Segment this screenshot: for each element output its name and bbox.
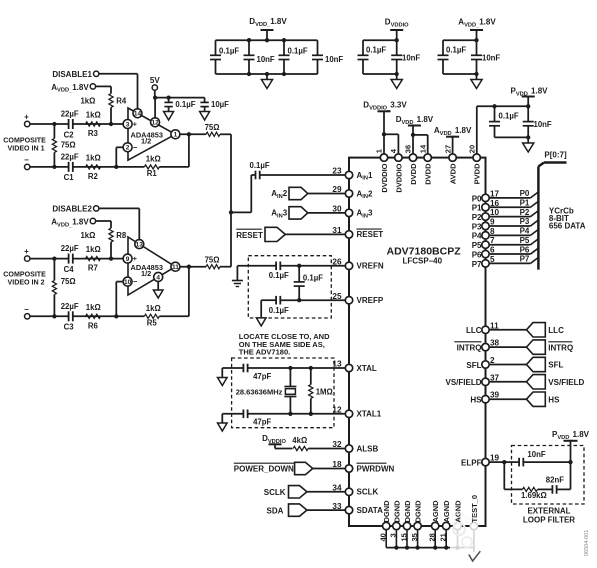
svg-text:+: + [24,113,29,122]
svg-text:0.1µF: 0.1µF [499,112,519,121]
svg-text:3: 3 [389,533,398,537]
svg-text:R1: R1 [147,169,158,178]
svg-text:9: 9 [490,217,495,226]
svg-text:COMPOSITE: COMPOSITE [3,137,46,145]
svg-text:19: 19 [490,454,500,463]
svg-text:SFL: SFL [466,361,481,370]
svg-text:P4: P4 [472,232,482,241]
svg-text:22µF: 22µF [61,110,79,119]
svg-text:14: 14 [418,144,427,153]
svg-text:656 DATA: 656 DATA [549,222,586,231]
svg-text:DGND: DGND [414,500,423,523]
svg-text:VS/FIELD: VS/FIELD [548,378,584,387]
svg-text:P5: P5 [520,236,530,245]
svg-text:COMPOSITE: COMPOSITE [3,271,46,279]
svg-text:INTRQ: INTRQ [548,343,573,352]
svg-text:22µF: 22µF [61,152,79,161]
svg-text:DGND: DGND [382,500,391,523]
svg-text:0.1µF: 0.1µF [269,271,289,280]
svg-text:10µF: 10µF [211,100,229,109]
svg-text:75Ω: 75Ω [61,140,76,149]
svg-text:38: 38 [490,339,500,348]
svg-text:C1: C1 [64,173,75,182]
svg-text:39: 39 [490,391,500,400]
svg-text:−: − [24,155,29,164]
svg-text:R5: R5 [147,318,158,327]
svg-text:4: 4 [156,274,160,281]
svg-text:C3: C3 [64,322,75,331]
svg-text:0.1µF: 0.1µF [250,161,270,170]
svg-text:SDATA: SDATA [357,506,384,515]
svg-text:10: 10 [490,208,500,217]
svg-text:P6: P6 [472,250,482,259]
svg-text:75Ω: 75Ω [205,255,220,264]
svg-text:HS: HS [470,396,482,405]
svg-text:AGND: AGND [431,500,440,523]
svg-text:06504-001: 06504-001 [584,530,590,556]
svg-text:1kΩ: 1kΩ [80,231,95,240]
svg-text:10nF: 10nF [257,55,275,64]
svg-text:7: 7 [490,236,495,245]
svg-text:0.1µF: 0.1µF [269,306,289,315]
svg-text:C4: C4 [64,265,75,274]
svg-text:ELPF: ELPF [461,459,482,468]
svg-text:LFCSP–40: LFCSP–40 [403,257,443,266]
svg-text:40: 40 [379,533,388,541]
svg-text:P2: P2 [472,213,482,222]
svg-text:P3: P3 [520,217,530,226]
svg-text:P1: P1 [472,204,482,213]
svg-text:AVDD: AVDD [449,163,458,184]
svg-text:XTAL: XTAL [357,364,377,373]
svg-text:+: + [24,247,29,256]
svg-text:XTAL1: XTAL1 [357,410,382,419]
svg-text:P4: P4 [520,227,530,236]
svg-text:2: 2 [126,145,130,152]
svg-text:8: 8 [490,227,495,236]
svg-text:AGND: AGND [454,500,463,523]
svg-text:1.69kΩ: 1.69kΩ [521,491,547,500]
svg-text:VS/FIELD: VS/FIELD [445,378,481,387]
svg-text:VREFN: VREFN [357,262,384,271]
svg-text:LOOP FILTER: LOOP FILTER [523,515,575,524]
svg-text:DGND: DGND [392,500,401,523]
svg-text:21: 21 [439,533,448,541]
svg-text:13: 13 [136,241,144,248]
svg-text:0.1µF: 0.1µF [288,47,308,56]
svg-text:DGND: DGND [403,500,412,523]
svg-text:R8: R8 [116,231,127,240]
svg-text:P1: P1 [520,198,530,207]
svg-text:+: + [133,120,138,129]
svg-text:4kΩ: 4kΩ [292,436,307,445]
svg-text:75Ω: 75Ω [205,123,220,132]
svg-text:3: 3 [126,121,130,128]
svg-text:5V: 5V [150,76,160,85]
svg-text:12: 12 [151,120,159,127]
svg-text:47pF: 47pF [253,418,271,427]
svg-text:DVDDIO: DVDDIO [380,163,389,192]
svg-text:C2: C2 [64,131,75,140]
svg-text:SFL: SFL [548,361,563,370]
svg-text:−: − [24,305,29,314]
svg-text:LLC: LLC [548,326,564,335]
svg-text:11: 11 [490,321,499,330]
svg-text:AGND: AGND [442,500,451,523]
svg-text:HS: HS [548,395,560,404]
svg-text:1kΩ: 1kΩ [86,303,101,312]
svg-text:R3: R3 [88,129,99,138]
svg-text:10: 10 [124,279,132,286]
svg-text:EXTERNAL: EXTERNAL [527,507,570,516]
svg-text:0.1µF: 0.1µF [219,47,239,56]
svg-text:DVDD: DVDD [409,163,418,185]
svg-text:1/2: 1/2 [141,269,151,278]
svg-text:36: 36 [404,145,413,153]
svg-text:11: 11 [172,264,179,271]
svg-text:82nF: 82nF [546,475,564,484]
svg-text:VIDEO IN 2: VIDEO IN 2 [8,279,45,287]
svg-text:9: 9 [126,256,130,263]
svg-text:0.1µF: 0.1µF [366,46,386,55]
svg-text:INTRQ: INTRQ [457,344,482,353]
svg-text:1: 1 [375,149,384,153]
svg-text:P3: P3 [472,222,482,231]
svg-text:1: 1 [174,132,178,139]
svg-text:+: + [133,254,138,263]
svg-text:R6: R6 [88,321,99,330]
svg-text:P7: P7 [472,260,482,269]
svg-text:PVDD: PVDD [473,163,482,184]
svg-text:1kΩ: 1kΩ [86,111,101,120]
svg-text:VREFP: VREFP [357,296,384,305]
svg-text:LLC: LLC [466,326,482,335]
svg-text:17: 17 [490,189,500,198]
svg-text:1kΩ: 1kΩ [146,154,161,163]
svg-text:0.1µF: 0.1µF [303,273,323,282]
svg-text:1/2: 1/2 [141,137,151,146]
svg-text:10nF: 10nF [527,450,545,459]
svg-text:P5: P5 [472,241,482,250]
svg-text:0.1µF: 0.1µF [175,100,195,109]
svg-text:SCLK: SCLK [357,488,379,497]
svg-text:P6: P6 [520,245,530,254]
svg-text:28.63636MHz: 28.63636MHz [236,387,283,396]
svg-text:22µF: 22µF [61,244,79,253]
svg-text:1MΩ: 1MΩ [316,387,333,396]
svg-text:DVDDIO: DVDDIO [394,163,403,192]
svg-text:DISABLE2: DISABLE2 [52,205,92,214]
svg-text:R4: R4 [116,97,127,106]
svg-text:5: 5 [490,255,495,264]
svg-text:22µF: 22µF [61,302,79,311]
svg-text:23: 23 [332,167,342,176]
svg-text:P2: P2 [520,208,530,217]
svg-text:10nF: 10nF [402,54,420,63]
svg-text:20: 20 [467,145,476,153]
svg-text:POWER_DOWN: POWER_DOWN [234,465,294,474]
svg-text:P[0:7]: P[0:7] [544,151,567,160]
svg-text:1kΩ: 1kΩ [146,304,161,313]
svg-text:15: 15 [399,533,408,541]
svg-text:SCLK: SCLK [264,488,286,497]
svg-text:SDA: SDA [267,506,284,515]
svg-text:10nF: 10nF [325,55,343,64]
svg-text:−: − [133,143,138,152]
svg-text:−: − [133,277,138,286]
svg-text:28: 28 [428,533,437,541]
svg-text:27: 27 [443,145,452,153]
svg-text:ALSB: ALSB [357,444,379,453]
svg-text:PWRDWN: PWRDWN [357,464,395,473]
svg-text:47pF: 47pF [253,372,271,381]
svg-text:1kΩ: 1kΩ [86,245,101,254]
svg-text:2: 2 [490,356,495,365]
svg-text:16: 16 [490,199,500,208]
svg-text:RESET: RESET [236,231,263,240]
svg-text:10nF: 10nF [534,120,552,129]
svg-text:P7: P7 [520,255,530,264]
svg-text:10nF: 10nF [482,54,500,63]
svg-text:35: 35 [410,533,419,541]
svg-text:1kΩ: 1kΩ [86,153,101,162]
svg-text:P0: P0 [520,189,530,198]
svg-text:6: 6 [490,246,495,255]
svg-text:37: 37 [490,373,500,382]
svg-text:1kΩ: 1kΩ [80,97,95,106]
svg-text:P0: P0 [472,194,482,203]
svg-text:RESET: RESET [357,230,384,239]
svg-text:R2: R2 [88,172,99,181]
svg-text:R7: R7 [88,264,98,273]
svg-text:THE ADV7180.: THE ADV7180. [239,347,290,356]
svg-text:VIDEO IN 1: VIDEO IN 1 [8,145,45,153]
svg-text:DISABLE1: DISABLE1 [52,70,92,79]
svg-text:75Ω: 75Ω [61,277,76,286]
svg-text:DVDD: DVDD [424,163,433,185]
svg-text:14: 14 [134,111,142,118]
svg-text:0.1µF: 0.1µF [446,46,466,55]
